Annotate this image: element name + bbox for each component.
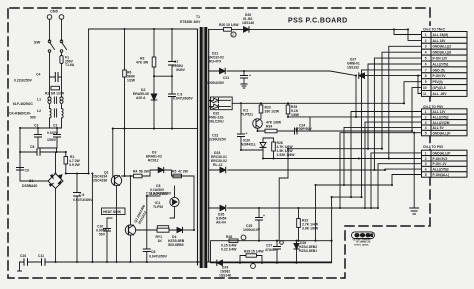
wire cn4 row3 riser [378,164,422,208]
svg-text:2: 2 [425,115,427,119]
transformer T1 [180,15,209,268]
shunt regulator IC20 [241,138,266,159]
capacitor C2 [47,124,61,149]
wire bridge bottom DC- to bus [55,189,57,263]
svg-text:0.047U/50V: 0.047U/50V [149,255,168,259]
svg-text:C11: C11 [38,254,44,258]
resistor R3 47K 3W [136,29,156,94]
svg-text:8: 8 [425,74,427,78]
svg-text:A20 A: A20 A [136,96,146,100]
wire row5 riser [374,58,421,170]
svg-text:3: 3 [425,121,427,125]
wire CN5 left lead [49,19,51,40]
svg-text:(1P)(2)-5: (1P)(2)-5 [433,86,446,90]
wire secondary 35V rail [209,71,422,76]
wire cn3 row3 riser [365,122,422,208]
connector CN5 [47,9,64,20]
wire cn4 row1 riser [371,153,422,208]
svg-text:C4: C4 [36,73,40,77]
wire snubber drop [91,174,93,263]
wire 12V rail [232,102,404,104]
svg-text:3.9 2W: 3.9 2W [69,163,81,167]
capacitor C8b [169,93,194,129]
svg-text:GND (5): GND (5) [433,68,445,72]
svg-text:C 6: C 6 [79,193,84,197]
svg-text:1SS146: 1SS146 [219,274,231,278]
svg-text:DS5BA60: DS5BA60 [22,184,37,188]
svg-text:R2: R2 [45,92,49,96]
wire aux tap [154,75,172,77]
svg-text:0.047U/630V: 0.047U/630V [173,97,194,101]
svg-text:C27: C27 [266,244,272,248]
resistor R4 56 2W [133,170,150,178]
svg-text:SW: SW [34,40,41,45]
svg-text:/630V: /630V [176,68,186,72]
resistor R20 15 1/4W [219,23,239,31]
svg-text:GND(ALL)P: GND(ALL)P [433,151,452,155]
svg-text:R24: R24 [266,125,272,129]
svg-text:3: 3 [425,45,427,49]
svg-text:1SS146: 1SS146 [242,21,254,25]
svg-text:RU-4YX: RU-4YX [209,60,222,64]
svg-text:RC012: RC012 [148,159,159,163]
svg-text:TOKYO JAPAN: TOKYO JAPAN [354,244,369,247]
svg-text:0.22 1/4W: 0.22 1/4W [221,248,237,252]
wire fb rail [263,138,389,159]
transformer T1 secondary winding [208,29,210,262]
diode D27 [347,58,365,79]
capacitor C25 [243,208,265,241]
svg-text:/250V: /250V [47,138,57,142]
inductor L1 common mode choke [13,97,63,106]
svg-text:NJM431L: NJM431L [241,143,256,147]
svg-text:11: 11 [423,92,427,96]
resistor R2 1M [45,86,65,95]
svg-text:HZS4.3EB1: HZS4.3EB1 [299,249,317,253]
svg-text:P-ON(ALL): P-ON(ALL) [433,173,450,177]
svg-text:2: 2 [425,157,427,161]
optocoupler IC1 [146,186,179,218]
svg-text:5: 5 [425,132,427,136]
svg-text:ALL(2V5)1: ALL(2V5)1 [433,62,449,66]
wire drop 315 [315,185,317,241]
svg-text:ALL -26V: ALL -26V [433,92,448,96]
svg-text:330 1/2W: 330 1/2W [265,110,280,114]
svg-text:R20: R20 [219,23,225,27]
svg-text:15 1/4W: 15 1/4W [251,250,264,254]
svg-text:ALL 18V: ALL 18V [433,39,447,43]
wire bridge DC+ rail [66,173,89,175]
svg-text:AK-04: AK-04 [216,221,226,225]
svg-text:3.9K 1/6W: 3.9K 1/6W [302,227,319,231]
wire feedback vertical [193,176,195,230]
svg-text:47 2W: 47 2W [178,170,189,174]
wire base drop [124,129,126,176]
wire output box [211,241,332,263]
svg-text:1: 1 [425,33,427,37]
diode D4 [168,227,194,247]
capacitor C24 [295,117,313,134]
wire primary top rail [89,28,198,30]
svg-text:C6: C6 [151,250,155,254]
resistor R6 560K [123,29,136,129]
wire Q3 collector wire [136,229,177,231]
wire row1 drop [394,29,422,34]
wire bridge left AC [20,180,48,182]
wire fb horizontal [288,148,382,150]
zener D26 [294,241,317,263]
wire primary bottom to bus [197,261,199,263]
svg-text:P-ON 12V: P-ON 12V [433,57,449,61]
svg-text:1000U/10V: 1000U/10V [243,228,261,232]
svg-text:0.22U/250V: 0.22U/250V [14,79,33,83]
svg-text:0.047U/400V: 0.047U/400V [73,198,94,202]
wire row3 riser [389,46,422,158]
svg-text:R4: R4 [133,170,137,174]
svg-text:GND(ALL)(8: GND(ALL)(8 [433,51,452,55]
diode D24 [217,260,231,277]
connector CN-3 rows [422,109,468,136]
connector CN-4 rows [422,150,468,177]
optocoupler IC1 output [241,109,262,129]
wire cn3 row4 riser [344,127,422,185]
transistor Q3 [125,204,147,235]
resistor R25 5.1K [286,103,300,117]
svg-text:5: 5 [425,173,427,177]
wire mid 185 [316,184,393,186]
svg-text:4700P/50V: 4700P/50V [295,127,313,131]
capacitor C9 [17,168,29,173]
diode D2 [133,88,157,129]
resistor RY1 [156,226,170,243]
diode D25 [216,205,226,224]
bridge rectifier D1 [22,174,63,189]
wire bus left end [18,262,22,271]
wire Q3 emitter to bus [130,235,132,262]
capacitor C21 [207,71,251,85]
wire mid rail [113,128,198,130]
connector CN-4 [422,143,467,149]
svg-text:2SC4236: 2SC4236 [93,179,107,183]
svg-text:ALL(2V5)3: ALL(2V5)3 [433,168,449,172]
svg-text:1M 1/2W: 1M 1/2W [51,92,65,96]
resistor R5 47 2W [172,170,189,178]
svg-text:OF JAPAN LTD: OF JAPAN LTD [356,241,371,244]
transformer T1 primary winding [197,29,199,265]
svg-text:L1: L1 [37,98,41,102]
resistor R23 330 [259,103,280,118]
wire F1 to L1 right [61,64,63,98]
svg-text:06LC20U: 06LC20U [209,120,224,124]
wire row11 riser [418,76,422,94]
capacitor C6 [20,145,57,155]
svg-text:1K: 1K [158,239,163,243]
switch SW [34,40,67,53]
ground C21 [241,84,247,88]
maker logo stamp [352,232,375,247]
svg-text:P-ON 5V2: P-ON 5V2 [433,157,448,161]
svg-text:L2: L2 [37,109,41,113]
node 2 marker [231,32,236,37]
svg-text:4: 4 [425,51,427,55]
wire bridge top to AC [56,152,66,174]
svg-text:+: + [249,74,251,78]
wire Q1 emitter down [116,186,118,262]
svg-text:ET528K 40IV: ET528K 40IV [180,20,201,24]
svg-text:ALL(2V5)2: ALL(2V5)2 [433,115,449,119]
svg-text:CN-2 TO TM-C: CN-2 TO TM-C [423,28,446,32]
svg-text:CK-K8B9C30-: CK-K8B9C30- [9,112,31,116]
wire L1 to L2 [50,103,62,108]
svg-text:R29: R29 [244,250,250,254]
svg-text:C21: C21 [223,76,229,80]
capacitor C4 [14,73,62,83]
wire secondary top rail [209,28,408,30]
wire row4 riser [382,52,422,149]
wire AC rail bottom [38,148,57,152]
svg-text:C10: C10 [20,254,26,258]
svg-text:3: 3 [425,162,427,166]
wire hook jumper [279,149,288,241]
svg-text:RL-1Z: RL-1Z [213,163,223,167]
wire 18V drop [355,76,357,117]
svg-text:1.52K 1/6W: 1.52K 1/6W [277,153,296,157]
wire row9 riser [404,82,422,104]
svg-text:ALL 12V: ALL 12V [433,110,447,114]
wire cn3 row1 riser [351,112,422,198]
svg-text:CN5: CN5 [50,9,59,14]
wire gnd 131 [310,130,412,132]
svg-text:GND(ALL)(2: GND(ALL)(2 [433,45,452,49]
svg-text:1000U/35V: 1000U/35V [207,81,225,85]
resistor R26 [272,138,296,159]
svg-text:1: 1 [425,110,427,114]
svg-text:S05.6EB9: S05.6EB9 [168,243,184,247]
svg-text:HEAT SINK: HEAT SINK [103,210,122,214]
wire Q1 base wire [122,175,194,177]
capacitor C11 [38,254,45,265]
heat sink label [102,208,126,215]
svg-text:ALL 24(M): ALL 24(M) [433,33,449,37]
svg-text:P-ON -2V: P-ON -2V [433,162,448,166]
svg-text:0.047U: 0.047U [47,131,58,135]
capacitor C27 [265,241,283,263]
diode D23 [211,151,227,173]
connector CN-3 [422,103,467,109]
wire -2V rail with D25 [209,207,378,209]
svg-text:TLP521: TLP521 [241,113,253,117]
wire SW to F1 [61,52,63,55]
wire cn4 row4 riser [385,168,422,171]
svg-text:C12 0.047U/50V: C12 0.047U/50V [146,192,172,196]
resistor R28 [221,235,246,252]
wire cn3 row5 gnd [340,133,422,208]
svg-text:1/6W: 1/6W [291,113,300,117]
transformer T1 core [202,27,205,268]
wire row6 riser [368,64,422,149]
resistor R29 [240,250,264,269]
svg-text:ALL 5V: ALL 5V [433,126,445,130]
resistor R22 [297,208,319,241]
capacitor C6b bottom [143,196,167,262]
wire rail drop left [112,129,114,176]
svg-text:6: 6 [425,62,427,66]
wire AC rail top [20,127,62,129]
ground symbol [410,208,419,214]
svg-text:CN-3 TO PSV: CN-3 TO PSV [423,105,444,109]
svg-text:C9: C9 [25,169,29,173]
svg-text:R28: R28 [226,235,232,239]
svg-text:5: 5 [425,57,427,61]
diode D21 [208,52,225,74]
capacitor C8 label [150,184,169,196]
capacitor C3 [34,124,42,149]
svg-text:7: 7 [425,68,427,72]
resistor R24 47K [265,121,295,133]
svg-text:ALL(2V)2M: ALL(2V)2M [433,121,450,125]
wire left AC branch [19,128,21,181]
wire 5V rail with D23 [209,169,385,171]
svg-text:9: 9 [425,80,427,84]
svg-text:47K 1/6W: 47K 1/6W [266,121,282,125]
svg-text:T1: T1 [196,15,200,19]
svg-text:2200U/25V: 2200U/25V [209,138,227,142]
svg-text:6LF-4629OC: 6LF-4629OC [13,102,33,106]
svg-text:2: 2 [232,33,234,37]
svg-text:C6: C6 [30,145,34,149]
wire 197 link [332,196,362,198]
svg-text:C2: C2 [53,124,57,128]
capacitor C7 [169,29,186,94]
capacitor C10p primary snubber [96,218,112,262]
diode pack D22 [209,97,233,124]
svg-text:56 2W: 56 2W [139,170,150,174]
wire L2 outputs to rail [50,118,62,128]
svg-text:2: 2 [425,39,427,43]
svg-text:47U/50V: 47U/50V [265,248,279,252]
wire box right riser [331,197,333,241]
wire row7 riser [362,70,422,197]
transistor Q1 [93,171,122,186]
wire R25 bottom rail [288,116,422,118]
svg-text:P5V(4): P5V(4) [433,80,443,84]
svg-text:15 1/4W: 15 1/4W [226,23,239,27]
svg-text:1SS132: 1SS132 [347,66,359,70]
svg-text:50V: 50V [99,233,106,237]
wire opto collector rail [258,128,266,131]
fuse F1 [60,56,75,68]
diode D20 [242,13,254,32]
wire main left rail [88,29,90,174]
svg-text:CN-4 TO PSV: CN-4 TO PSV [423,145,444,149]
connector CN-2 [422,26,467,32]
wire cn4 row2 horizontal [389,158,422,160]
connector CN-2 rows [422,32,468,97]
wire row10 riser [412,88,422,131]
svg-text:T1.6A: T1.6A [65,63,75,67]
wire bottom bus [20,261,332,263]
capacitor C5 [73,174,94,263]
resistor R1 [64,152,81,174]
svg-text:47K 3W: 47K 3W [136,61,149,65]
svg-text:4: 4 [425,168,427,172]
svg-text:1/2W: 1/2W [127,79,136,83]
capacitor C22 [209,103,263,150]
svg-text:10: 10 [423,86,427,90]
svg-text:R5: R5 [172,170,176,174]
svg-text:GND(ALL)P: GND(ALL)P [433,132,452,136]
wire base net down to Q3 [130,176,132,225]
svg-text:900: 900 [30,116,36,120]
wire CN5 right lead [61,19,63,40]
wire row2 drop [408,29,422,40]
diode D3 with loop [146,151,172,177]
wire cn4 row5 riser [392,175,422,186]
svg-text:P-ON 5V: P-ON 5V [433,74,447,78]
svg-text:1: 1 [425,151,427,155]
svg-text:TLP52: TLP52 [153,205,163,209]
svg-text:+: + [246,132,248,136]
svg-text:+: + [263,214,265,218]
svg-text:4: 4 [425,126,427,130]
svg-text:C3: C3 [34,124,38,128]
capacitor C10 [20,254,28,265]
inductor L2 common mode choke [9,109,63,120]
wire SW to C4 left [49,52,51,97]
svg-text:PSS P.C.BOARD: PSS P.C.BOARD [288,18,348,25]
